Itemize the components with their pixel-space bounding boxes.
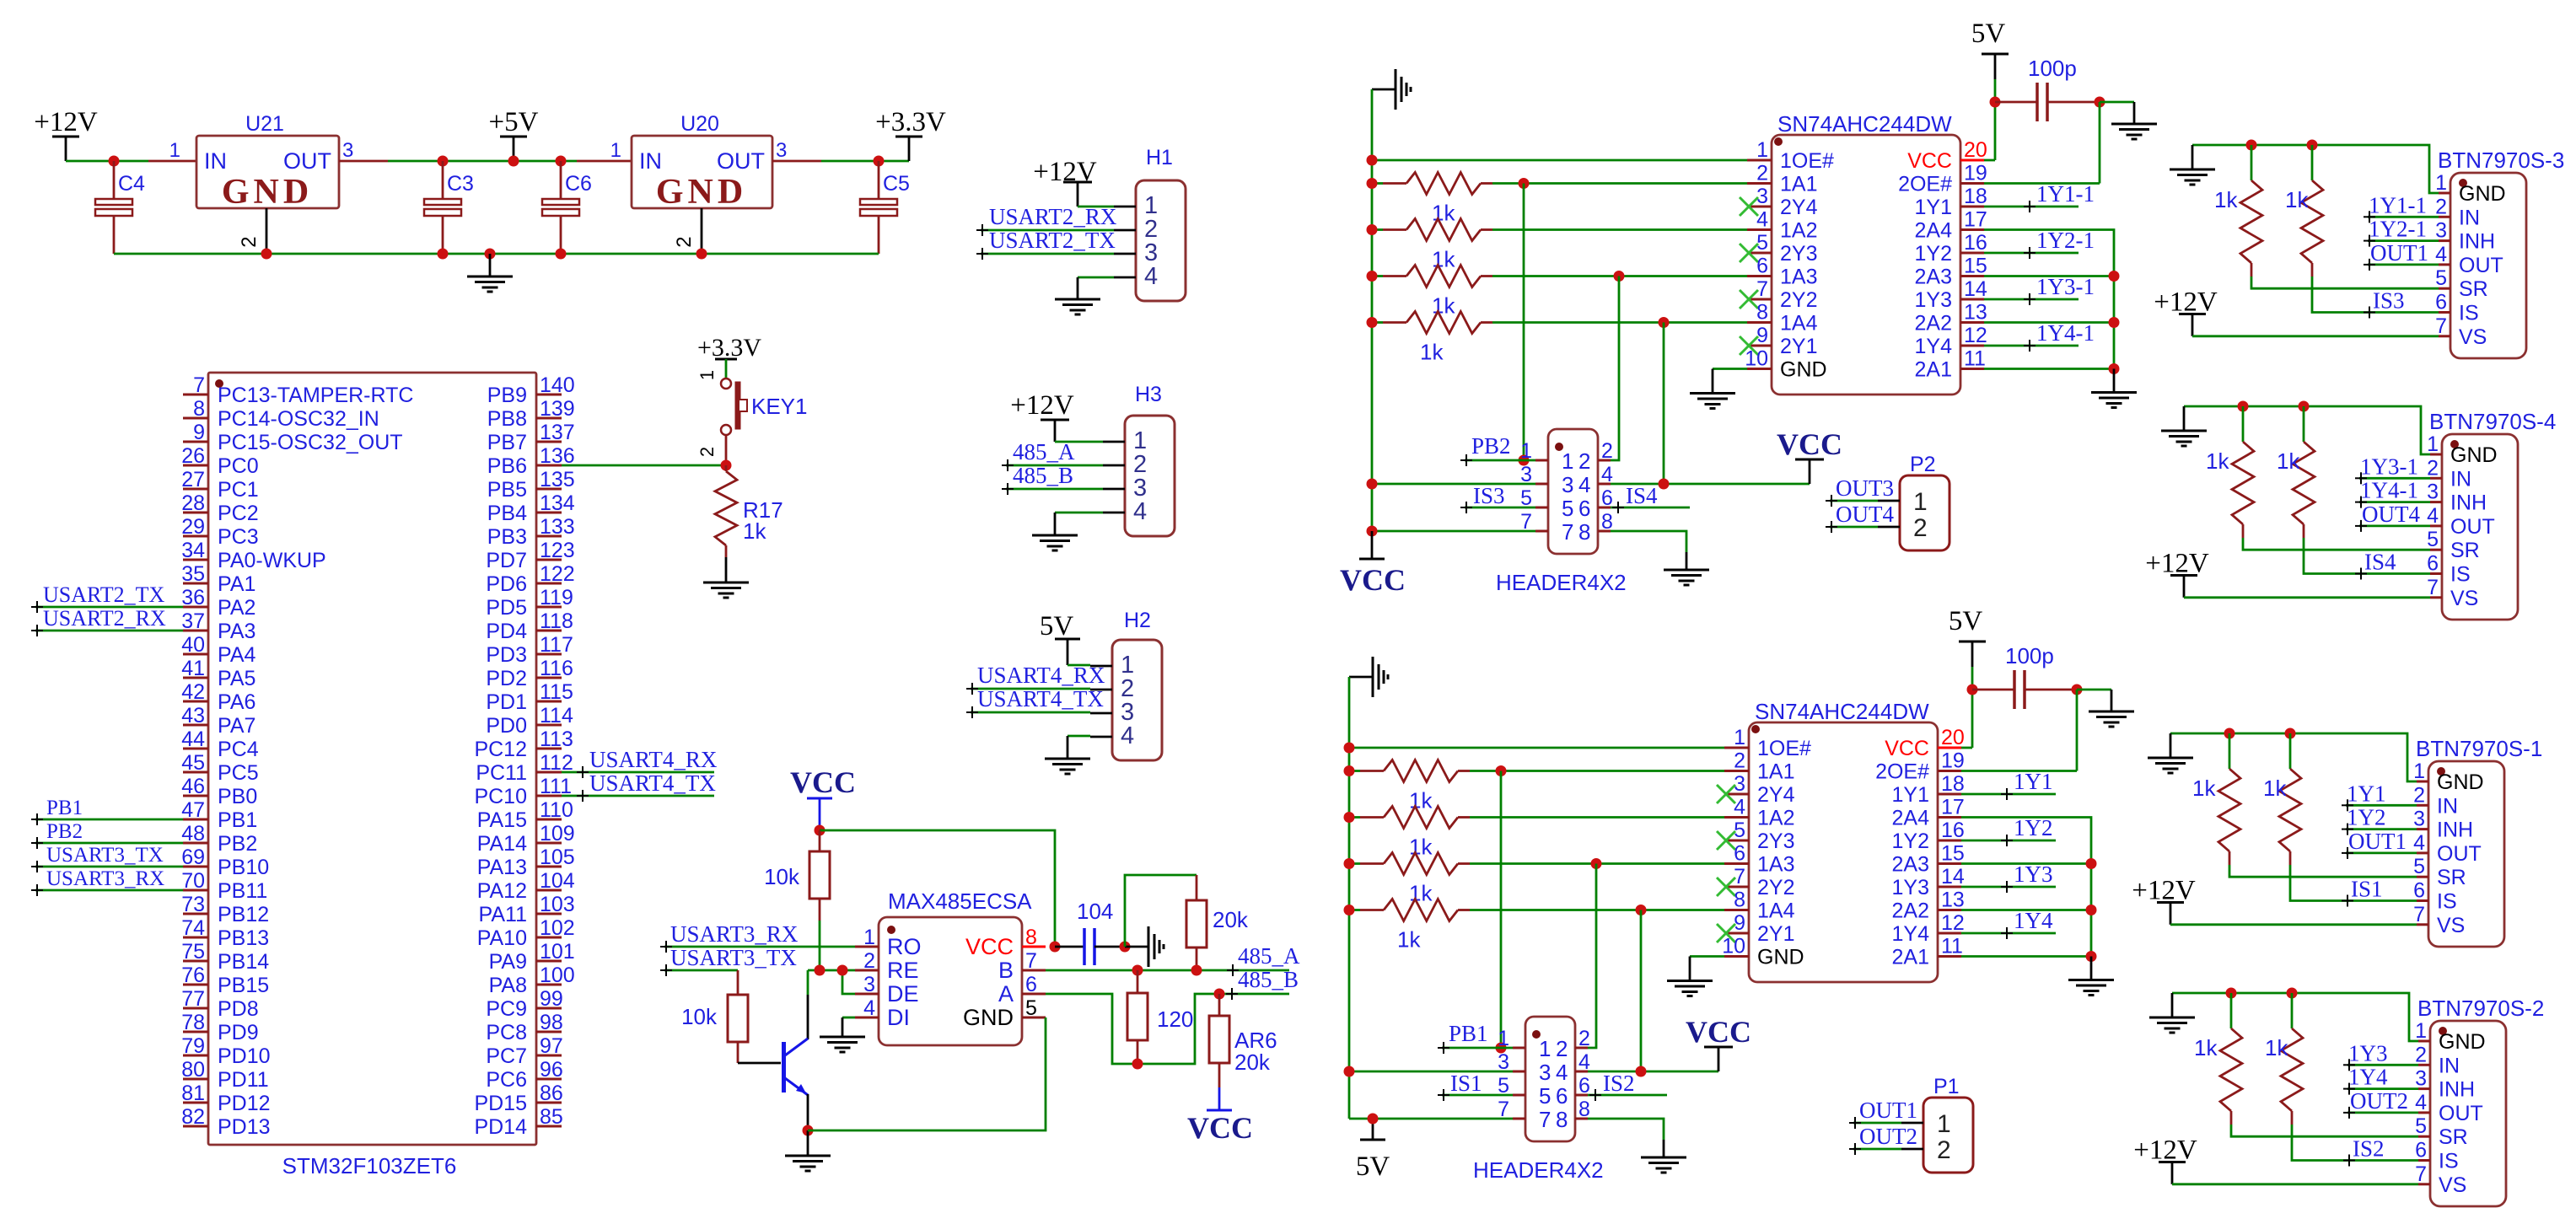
svg-text:8: 8 — [1578, 519, 1590, 545]
svg-text:2: 2 — [2435, 195, 2447, 218]
svg-text:USART2_RX: USART2_RX — [43, 606, 166, 631]
svg-text:1k: 1k — [2285, 187, 2309, 212]
svg-text:IN: IN — [2459, 206, 2480, 229]
svg-text:5V: 5V — [1040, 611, 1074, 642]
svg-text:1Y1-1: 1Y1-1 — [2036, 181, 2095, 207]
svg-text:USART3_TX: USART3_TX — [670, 945, 797, 970]
svg-text:VS: VS — [2459, 325, 2487, 349]
net USART3_TX wire — [31, 844, 183, 872]
svg-text:SR: SR — [2437, 866, 2466, 889]
ground rail top — [1372, 69, 1411, 110]
capacitor C5 — [860, 161, 910, 254]
junction drop pb wire 2 — [1496, 1043, 1507, 1054]
wire rail to header pin7 — [1372, 530, 1535, 533]
svg-text:PC0: PC0 — [218, 454, 259, 478]
ground header pin8 2 — [1641, 1157, 1686, 1173]
svg-text:81: 81 — [181, 1082, 205, 1105]
svg-text:PC3: PC3 — [218, 525, 259, 549]
svg-text:73: 73 — [181, 893, 205, 916]
svg-text:1A3: 1A3 — [1780, 266, 1817, 289]
svg-text:PA0-WKUP: PA0-WKUP — [218, 549, 326, 572]
net PB2 wire — [31, 820, 183, 849]
svg-text:118: 118 — [540, 609, 573, 633]
capacitor C6 — [542, 161, 592, 254]
svg-text:SR: SR — [2450, 539, 2480, 562]
svg-text:VS: VS — [2439, 1173, 2466, 1197]
junction right rail pin13 2 — [2086, 905, 2097, 915]
wire 2OE# pin19 — [1984, 102, 2100, 184]
wire H3 pin4 to ground — [1055, 513, 1103, 535]
wire H1 pin4 to ground — [1078, 277, 1114, 299]
svg-text:4: 4 — [1121, 722, 1134, 749]
net IS3 wire — [1460, 483, 1535, 513]
junction 5V cap 2 — [1967, 684, 1978, 695]
svg-text:2: 2 — [1578, 448, 1590, 474]
svg-text:5: 5 — [2415, 1114, 2427, 1138]
ground header pin8 — [1664, 570, 1709, 585]
svg-text:2Y2: 2Y2 — [1757, 876, 1794, 899]
svg-text:SR: SR — [2459, 277, 2488, 301]
resistor R 1k b BTN7970S-4 — [2277, 406, 2430, 574]
svg-text:+5V: +5V — [489, 107, 539, 137]
net OUT4 wire — [1826, 502, 1894, 533]
svg-text:OUT: OUT — [2450, 515, 2495, 539]
svg-text:37: 37 — [181, 609, 205, 633]
svg-text:137: 137 — [540, 421, 575, 444]
svg-text:42: 42 — [181, 680, 205, 704]
junction +5V — [508, 156, 519, 167]
svg-text:PC7: PC7 — [486, 1044, 527, 1068]
net 1Y3-1 wire — [2355, 454, 2430, 484]
net 1Y4 wire — [1961, 908, 2056, 939]
svg-text:2: 2 — [2427, 456, 2439, 480]
svg-text:1A2: 1A2 — [1757, 807, 1794, 830]
svg-text:PB14: PB14 — [218, 950, 269, 974]
junction cap right — [2095, 97, 2105, 108]
junction AR6 top — [1214, 989, 1225, 1000]
svg-text:15: 15 — [1941, 842, 1965, 866]
ground pin10 — [1690, 394, 1735, 409]
svg-text:4: 4 — [1578, 472, 1590, 497]
svg-text:PA11: PA11 — [479, 903, 527, 926]
svg-text:20: 20 — [1941, 726, 1965, 749]
net 1Y2 wire — [2342, 805, 2417, 835]
net OUT2 wire — [1849, 1124, 1917, 1155]
power flag +12V BTN7970S-2 — [2133, 1135, 2197, 1184]
svg-text:2A2: 2A2 — [1915, 312, 1952, 336]
svg-text:123: 123 — [540, 539, 575, 562]
driver U BTN7970S-1 — [2413, 736, 2542, 947]
svg-text:SN74AHC244DW: SN74AHC244DW — [1755, 699, 1929, 724]
svg-text:1k: 1k — [1397, 927, 1421, 953]
svg-text:6: 6 — [2413, 879, 2425, 903]
svg-text:4: 4 — [2427, 504, 2439, 528]
svg-text:6: 6 — [2427, 552, 2439, 576]
svg-text:28: 28 — [181, 491, 205, 515]
svg-text:+3.3V: +3.3V — [697, 334, 761, 362]
resistor R 20k — [1186, 875, 1249, 970]
wire GND pin10 — [1713, 369, 1747, 394]
net OUT2 wire — [2343, 1088, 2418, 1119]
net 485_A wire H3 — [1002, 439, 1103, 471]
power flag 5V U4 — [1949, 606, 1986, 690]
svg-text:USART3_RX: USART3_RX — [46, 867, 164, 890]
net IS4 wire — [1611, 483, 1690, 513]
net IS3 label — [2364, 288, 2405, 319]
net IS1 wire — [1438, 1071, 1513, 1101]
net USART2_RX wire — [31, 606, 183, 636]
svg-text:H1: H1 — [1146, 146, 1173, 169]
svg-text:7: 7 — [193, 373, 205, 397]
power flag VCC MAX485 — [790, 765, 856, 829]
svg-text:PC6: PC6 — [486, 1068, 527, 1092]
svg-text:8: 8 — [193, 397, 205, 421]
svg-text:USART2_TX: USART2_TX — [989, 228, 1116, 253]
svg-text:VS: VS — [2450, 587, 2478, 610]
svg-text:2: 2 — [1601, 439, 1613, 463]
svg-text:PD13: PD13 — [218, 1115, 271, 1139]
net OUT1 wire — [2342, 829, 2417, 859]
svg-text:1Y4: 1Y4 — [1892, 922, 1930, 946]
net 1Y3 wire — [1961, 862, 2056, 893]
junction rail row3 — [1367, 271, 1378, 282]
svg-text:1Y4: 1Y4 — [2348, 1065, 2388, 1090]
svg-text:47: 47 — [181, 798, 205, 822]
ground H1 — [1055, 299, 1100, 314]
wire H2 pin1 — [1068, 664, 1090, 667]
svg-text:2: 2 — [2415, 1043, 2427, 1066]
junction U21 pin2 — [261, 249, 272, 260]
ground right MAX485 — [1125, 926, 1164, 967]
svg-text:1Y1: 1Y1 — [2014, 769, 2053, 794]
svg-text:7: 7 — [1734, 865, 1745, 888]
resistor R 1k b BTN7970S-1 — [2263, 733, 2417, 901]
connector P1 — [1901, 1075, 1973, 1173]
svg-text:PD6: PD6 — [486, 572, 527, 596]
svg-text:5: 5 — [2427, 528, 2439, 551]
svg-text:OUT3: OUT3 — [1836, 475, 1894, 501]
svg-text:1Y2-1: 1Y2-1 — [2369, 217, 2427, 242]
pushbutton KEY1 — [696, 378, 808, 465]
svg-text:USART4_TX: USART4_TX — [977, 686, 1104, 711]
svg-text:PC4: PC4 — [218, 738, 259, 761]
svg-text:99: 99 — [540, 987, 563, 1011]
driver U BTN7970S-4 — [2427, 409, 2556, 620]
junction res1 BTN7970S-1 — [2224, 728, 2235, 739]
svg-text:IN: IN — [2437, 794, 2458, 818]
junction 120 bottom — [1132, 1059, 1143, 1070]
svg-text:14: 14 — [1941, 865, 1965, 888]
svg-text:104: 104 — [540, 869, 575, 893]
junction right rail pin15 — [2109, 271, 2120, 282]
svg-text:GND: GND — [222, 173, 313, 212]
junction cap right 2 — [2072, 684, 2083, 695]
junction 5V cap — [1990, 97, 2001, 108]
svg-text:109: 109 — [540, 822, 575, 846]
svg-text:77: 77 — [181, 987, 205, 1011]
svg-text:H3: H3 — [1135, 383, 1162, 406]
ground 100p — [2100, 102, 2157, 139]
svg-text:PB11: PB11 — [218, 879, 267, 903]
junction res1 drop 2 — [1496, 765, 1507, 776]
ground right rail — [2091, 369, 2137, 408]
ground right rail 2 — [2068, 957, 2114, 996]
resistor R 1k row1 — [1372, 173, 1747, 226]
svg-text:5V: 5V — [1949, 606, 1983, 636]
svg-text:1: 1 — [1756, 138, 1768, 162]
svg-text:BTN7970S-4: BTN7970S-4 — [2429, 409, 2556, 434]
svg-text:BTN7970S-3: BTN7970S-3 — [2438, 148, 2564, 173]
junction header pin4 2 — [1636, 1066, 1647, 1077]
svg-text:IN: IN — [2450, 467, 2471, 491]
resistor AR6 20k — [1209, 994, 1277, 1087]
junction res3 drop 2 — [1591, 858, 1602, 869]
svg-text:96: 96 — [540, 1058, 563, 1082]
junction res2 BTN7970S-2 — [2287, 988, 2298, 999]
svg-text:2A1: 2A1 — [1892, 946, 1929, 969]
svg-text:140: 140 — [540, 373, 575, 397]
svg-text:5: 5 — [2435, 266, 2447, 290]
svg-text:IS4: IS4 — [1626, 483, 1658, 508]
svg-text:C5: C5 — [883, 172, 910, 196]
svg-text:1Y3-1: 1Y3-1 — [2036, 274, 2095, 299]
svg-text:1Y4-1: 1Y4-1 — [2036, 320, 2095, 346]
svg-text:3: 3 — [863, 973, 875, 996]
wire rail to header pin3 2 — [1349, 1071, 1513, 1073]
svg-text:3: 3 — [1734, 772, 1745, 796]
svg-text:GND: GND — [963, 1005, 1014, 1030]
svg-text:PD2: PD2 — [486, 667, 527, 690]
svg-text:4: 4 — [1556, 1060, 1568, 1085]
svg-text:1k: 1k — [2263, 776, 2287, 801]
svg-text:IS: IS — [2437, 890, 2457, 914]
wire 1OE# — [1372, 159, 1747, 162]
capacitor C 104 — [1055, 899, 1125, 965]
power flag VCC rail — [1340, 531, 1406, 597]
svg-text:OUT: OUT — [2437, 842, 2482, 866]
svg-text:KEY1: KEY1 — [751, 394, 808, 419]
svg-text:115: 115 — [540, 680, 573, 704]
wire left rail 2 — [1348, 677, 1351, 1119]
svg-text:IN: IN — [2439, 1054, 2460, 1077]
net OUT3 wire — [1826, 475, 1894, 507]
junction rail row4 2 — [1344, 905, 1355, 915]
svg-text:13: 13 — [1941, 888, 1965, 912]
svg-text:OUT1: OUT1 — [1859, 1098, 1917, 1123]
svg-text:41: 41 — [181, 657, 205, 680]
svg-text:PC2: PC2 — [218, 502, 259, 525]
ground H2 — [1045, 759, 1090, 774]
net IS4 label — [2355, 550, 2396, 580]
svg-text:PD9: PD9 — [218, 1021, 259, 1044]
junction C3 — [438, 156, 449, 167]
svg-text:PA14: PA14 — [477, 832, 527, 856]
svg-text:2: 2 — [1734, 749, 1745, 773]
svg-text:105: 105 — [540, 846, 575, 869]
svg-text:1: 1 — [863, 926, 875, 949]
svg-text:PB1: PB1 — [46, 797, 83, 819]
junction C6 — [556, 156, 567, 167]
net USART3_RX wire — [31, 867, 183, 896]
junction header pin4 — [1659, 479, 1670, 490]
svg-text:3: 3 — [1539, 1060, 1551, 1085]
svg-text:48: 48 — [181, 822, 205, 846]
svg-text:119: 119 — [540, 586, 573, 609]
svg-text:OUT: OUT — [283, 148, 331, 174]
svg-text:PB7: PB7 — [487, 431, 527, 454]
net PB1 wire — [1438, 1021, 1513, 1054]
junction right rail pin11 — [2109, 363, 2120, 374]
wire top GND net BTN7970S-2 — [2172, 993, 2418, 1041]
svg-text:1OE#: 1OE# — [1780, 149, 1834, 173]
svg-text:82: 82 — [181, 1105, 205, 1129]
svg-text:80: 80 — [181, 1058, 205, 1082]
svg-text:2: 2 — [1913, 514, 1928, 542]
svg-text:7: 7 — [1562, 519, 1573, 545]
svg-text:9: 9 — [1756, 324, 1768, 347]
net IS2 wire — [1588, 1071, 1667, 1101]
svg-text:OUT2: OUT2 — [1859, 1124, 1917, 1149]
net 1Y4 wire — [2343, 1065, 2418, 1095]
svg-text:1: 1 — [610, 139, 621, 162]
wire rail to header pin7 2 — [1349, 1118, 1513, 1120]
svg-text:4: 4 — [2413, 831, 2425, 855]
ground power rail — [467, 254, 513, 292]
svg-text:3: 3 — [1756, 185, 1768, 208]
net USART4_RX wire — [562, 747, 718, 778]
svg-text:PB3: PB3 — [487, 525, 527, 549]
svg-text:133: 133 — [540, 515, 575, 539]
svg-text:86: 86 — [540, 1082, 563, 1105]
svg-text:2: 2 — [696, 447, 718, 457]
capacitor C4 — [95, 161, 145, 254]
svg-text:PC12: PC12 — [474, 738, 527, 761]
svg-text:3: 3 — [2427, 480, 2439, 504]
svg-text:26: 26 — [181, 444, 205, 468]
svg-text:18: 18 — [1964, 185, 1987, 208]
wire pin20 VCC 2 — [1961, 690, 1972, 748]
svg-text:PA4: PA4 — [218, 643, 255, 667]
svg-text:1k: 1k — [2194, 1035, 2218, 1060]
capacitor C 100p 2 — [1972, 643, 2077, 709]
power flag +12V — [34, 107, 98, 161]
svg-text:40: 40 — [181, 633, 205, 657]
wire PB6 to KEY1 — [562, 464, 726, 467]
svg-text:7: 7 — [2435, 314, 2447, 338]
resistor R 1k row2 — [1372, 219, 1747, 272]
svg-text:100: 100 — [540, 964, 575, 987]
svg-text:3: 3 — [1562, 472, 1573, 497]
svg-text:1: 1 — [2413, 760, 2425, 783]
svg-text:IS4: IS4 — [2364, 550, 2396, 575]
svg-text:1Y1: 1Y1 — [1892, 783, 1929, 807]
svg-text:1Y4: 1Y4 — [2014, 908, 2053, 933]
svg-text:7: 7 — [1539, 1107, 1551, 1132]
svg-text:2Y2: 2Y2 — [1780, 288, 1817, 312]
svg-text:P2: P2 — [1910, 453, 1936, 476]
svg-text:8: 8 — [1734, 888, 1745, 912]
junction rail row1 — [1367, 178, 1378, 189]
power flag VCC AR6 — [1187, 1087, 1253, 1145]
svg-text:PB9: PB9 — [487, 384, 527, 407]
svg-text:2A1: 2A1 — [1915, 358, 1952, 382]
svg-text:4: 4 — [1734, 796, 1745, 819]
svg-text:1Y1: 1Y1 — [1915, 196, 1952, 219]
transceiver U2 MAX485ECSA — [855, 888, 1046, 1045]
svg-text:PD5: PD5 — [486, 596, 527, 620]
junction res1 BTN7970S-3 — [2246, 140, 2257, 151]
svg-text:PB1: PB1 — [1449, 1021, 1488, 1046]
svg-text:100p: 100p — [2028, 56, 2077, 81]
svg-text:4: 4 — [2435, 243, 2447, 266]
svg-text:USART4_RX: USART4_RX — [977, 663, 1105, 688]
svg-text:20: 20 — [1964, 138, 1987, 162]
svg-text:IS3: IS3 — [2373, 288, 2405, 314]
wire header pin8 to ground — [1611, 531, 1686, 570]
svg-text:485_A: 485_A — [1238, 943, 1300, 969]
svg-text:2: 2 — [1756, 162, 1768, 185]
svg-text:5: 5 — [1025, 996, 1037, 1020]
svg-text:OUT4: OUT4 — [2362, 502, 2420, 527]
svg-text:104: 104 — [1077, 899, 1113, 924]
ground DI — [820, 1037, 865, 1052]
ground BTN7970S-4 — [2161, 406, 2207, 446]
svg-text:100p: 100p — [2005, 643, 2054, 668]
svg-text:PB13: PB13 — [218, 926, 269, 950]
junction 20k bottom — [1191, 965, 1202, 976]
wire +12V to U21 IN — [66, 160, 196, 163]
svg-text:USART2_TX: USART2_TX — [43, 582, 165, 607]
svg-text:4: 4 — [1133, 498, 1147, 525]
junction C5 — [874, 156, 885, 167]
svg-text:IS: IS — [2450, 563, 2471, 587]
svg-text:OUT2: OUT2 — [2350, 1088, 2408, 1114]
svg-text:2Y4: 2Y4 — [1780, 196, 1818, 219]
svg-text:17: 17 — [1964, 208, 1987, 232]
svg-text:12: 12 — [1964, 324, 1987, 347]
junction rail row2 2 — [1344, 812, 1355, 823]
svg-text:OUT1: OUT1 — [2370, 240, 2428, 266]
driver U BTN7970S-3 — [2435, 148, 2564, 358]
svg-text:35: 35 — [181, 562, 205, 586]
svg-text:SN74AHC244DW: SN74AHC244DW — [1777, 111, 1952, 137]
resistor R 1k row4 2 — [1349, 899, 1724, 953]
junction C4/+12V — [109, 156, 120, 167]
svg-text:PD4: PD4 — [486, 620, 527, 643]
junction res3 drop — [1614, 271, 1625, 282]
svg-text:VCC: VCC — [965, 934, 1014, 959]
svg-text:2A4: 2A4 — [1915, 219, 1953, 243]
svg-text:44: 44 — [181, 727, 205, 751]
svg-text:135: 135 — [540, 468, 575, 491]
svg-text:PC11: PC11 — [476, 761, 527, 785]
wire drop res3 to header pin2 — [1611, 276, 1619, 461]
svg-text:C3: C3 — [447, 172, 474, 196]
junction rail row1 2 — [1344, 765, 1355, 776]
svg-text:3: 3 — [2413, 808, 2425, 831]
svg-text:PD3: PD3 — [486, 643, 527, 667]
svg-text:B: B — [998, 958, 1014, 983]
svg-text:U21: U21 — [245, 112, 284, 136]
net USART2_TX wire — [31, 582, 183, 613]
wire drop res4 to header pin4 — [1663, 323, 1665, 485]
svg-text:114: 114 — [540, 704, 573, 727]
svg-text:1: 1 — [1562, 448, 1573, 474]
junction KEY1/R17 — [721, 460, 732, 471]
svg-text:19: 19 — [1941, 749, 1965, 773]
svg-text:PC9: PC9 — [486, 997, 527, 1021]
ground Q1 — [785, 1130, 831, 1171]
